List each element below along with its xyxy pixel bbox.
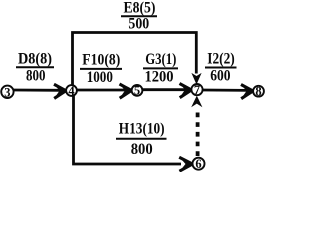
svg-text:I2(2): I2(2) bbox=[207, 51, 235, 68]
svg-text:G3(1): G3(1) bbox=[145, 51, 176, 68]
svg-text:7: 7 bbox=[194, 83, 200, 97]
svg-text:E8(5): E8(5) bbox=[124, 0, 156, 17]
svg-text:1200: 1200 bbox=[144, 69, 173, 86]
svg-text:800: 800 bbox=[26, 68, 46, 85]
svg-text:H13(10): H13(10) bbox=[119, 121, 165, 138]
svg-text:4: 4 bbox=[68, 84, 75, 98]
svg-text:500: 500 bbox=[128, 16, 149, 33]
svg-text:6: 6 bbox=[195, 157, 201, 171]
svg-text:5: 5 bbox=[134, 84, 140, 98]
svg-text:1000: 1000 bbox=[87, 69, 113, 86]
svg-text:600: 600 bbox=[210, 68, 230, 85]
svg-text:3: 3 bbox=[4, 85, 10, 99]
svg-text:F10(8): F10(8) bbox=[82, 52, 120, 69]
svg-text:D8(8): D8(8) bbox=[18, 51, 52, 68]
svg-text:8: 8 bbox=[255, 85, 261, 99]
svg-text:800: 800 bbox=[131, 141, 153, 158]
